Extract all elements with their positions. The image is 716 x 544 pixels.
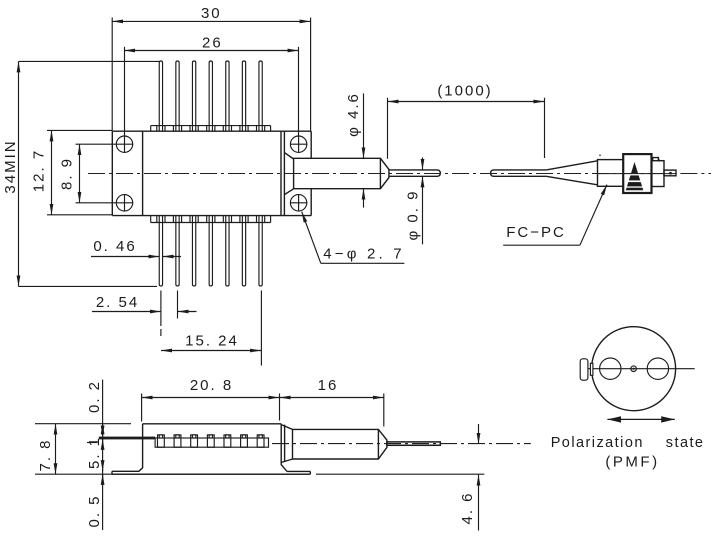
dim 30 xyxy=(112,18,310,132)
snout transition (side) xyxy=(281,425,292,463)
svg-text:(PMF): (PMF) xyxy=(605,454,659,471)
svg-text:30: 30 xyxy=(201,5,222,22)
dim phi4.6 xyxy=(363,93,365,207)
snout transition trapezoid xyxy=(284,153,293,195)
bottom seal strip with serrations xyxy=(151,216,271,223)
svg-text:0. 46: 0. 46 xyxy=(93,238,136,255)
svg-text:Polarization state: Polarization state xyxy=(551,435,705,451)
connector boot cylinder xyxy=(598,160,624,187)
mounting hole bottom-right xyxy=(290,194,307,211)
svg-text:0. 2: 0. 2 xyxy=(86,380,103,413)
svg-text:(1000): (1000) xyxy=(437,83,492,100)
connector rear key step xyxy=(653,158,659,161)
bottom pin row (7 leads) xyxy=(159,216,262,286)
dim 15.24 xyxy=(161,291,261,366)
svg-text:7. 8: 7. 8 xyxy=(37,438,54,471)
fiber nose cylinder xyxy=(294,158,389,189)
side view centerline xyxy=(272,443,531,445)
dim 34MIN xyxy=(19,61,160,286)
svg-text:2. 54: 2. 54 xyxy=(96,294,139,311)
main optical centerline xyxy=(88,173,676,175)
mounting hole top-right xyxy=(290,136,307,153)
dim 26 xyxy=(124,47,298,136)
butterfly package flange (top view) xyxy=(112,131,311,215)
top seal strip with serrations xyxy=(151,126,271,132)
fiber cladding circle xyxy=(592,327,676,411)
stress rod right xyxy=(647,358,668,379)
svg-text:4−φ 2. 7: 4−φ 2. 7 xyxy=(323,246,405,263)
svg-text:12. 7: 12. 7 xyxy=(31,149,48,192)
fiber pigtail tube segment 1 xyxy=(389,170,440,176)
svg-text:φ 4.6: φ 4.6 xyxy=(345,92,362,137)
dim 7.8 xyxy=(35,424,310,475)
lead exiting left (thick) xyxy=(99,437,155,440)
connector key xyxy=(580,359,593,380)
mounting hole top-left xyxy=(116,136,133,153)
nose cylinder (side) xyxy=(293,429,387,459)
connector bore line xyxy=(598,173,677,175)
stacked dims 0.2 / 5.1 / 0.5 xyxy=(87,380,103,530)
dim 2.54 xyxy=(92,291,197,337)
svg-text:5. 1: 5. 1 xyxy=(86,436,103,469)
centerline tail after connector xyxy=(680,173,711,175)
svg-text:4. 6: 4. 6 xyxy=(459,491,476,524)
fiber core xyxy=(631,366,637,372)
svg-text:16: 16 xyxy=(318,377,339,394)
connector boot taper xyxy=(546,161,597,185)
connector end stub xyxy=(664,170,676,176)
fiber pigtail tube segment 2 xyxy=(491,170,547,176)
dim 20.8 xyxy=(142,394,280,422)
polarization direction arrow xyxy=(607,416,674,422)
stub tick xyxy=(669,172,671,175)
mounting hole bottom-left xyxy=(116,194,133,211)
dim 8.9 xyxy=(76,144,117,203)
svg-text:0. 5: 0. 5 xyxy=(86,494,103,527)
svg-text:20. 8: 20. 8 xyxy=(190,377,233,394)
top pin row (7 leads) xyxy=(159,61,262,131)
package body (side view) xyxy=(139,424,287,472)
lead row seal strip (side) xyxy=(155,438,268,447)
key dot xyxy=(658,159,660,161)
svg-text:FC−PC: FC−PC xyxy=(506,224,566,241)
svg-text:8. 9: 8. 9 xyxy=(59,157,76,190)
dim phi0.9 xyxy=(422,158,424,245)
stress rod left xyxy=(600,358,621,379)
polarization axis line xyxy=(581,368,695,370)
dim 4.6 (side) xyxy=(316,424,484,531)
fiber stub (side) xyxy=(387,442,440,445)
svg-text:15. 24: 15. 24 xyxy=(185,333,239,350)
svg-text:34MIN: 34MIN xyxy=(2,139,19,193)
svg-text:26: 26 xyxy=(202,34,223,51)
leader 4-phi2.7 xyxy=(302,212,405,264)
speck above boot xyxy=(599,155,601,157)
leader FC-PC xyxy=(503,185,607,246)
lead pads xyxy=(158,435,265,447)
dim 0.46 xyxy=(91,256,181,258)
base plate xyxy=(112,471,310,474)
svg-text:φ 0. 9: φ 0. 9 xyxy=(405,190,422,241)
FC connector coupling body xyxy=(623,154,651,193)
dim 16 xyxy=(280,394,384,427)
dim (1000) xyxy=(388,98,545,159)
connector rear housing xyxy=(652,161,665,187)
dim 12.7 xyxy=(47,130,112,214)
connector thread symbol (striped triangle) xyxy=(625,162,644,190)
